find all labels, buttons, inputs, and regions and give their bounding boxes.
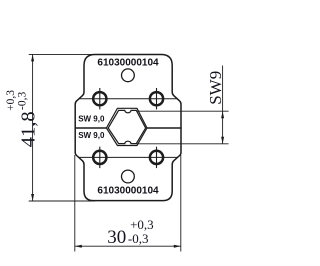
41,8 arrow down: [31, 194, 34, 201]
svg-text:+0,3: +0,3: [130, 217, 154, 232]
30 left extension line: [74, 155, 76, 252]
hole bottom-right: [150, 147, 163, 168]
hexagon cavity inner contour with relief notches: [108, 110, 145, 143]
svg-text:SW9: SW9: [206, 71, 225, 105]
hole top-left: [93, 88, 106, 109]
hole bottom-left: [93, 147, 106, 168]
SW9 dimension line: [222, 66, 224, 144]
bottom holes horizontal centerline: [79, 156, 178, 158]
SW9 arrow down: [221, 137, 224, 144]
parting line right segment: [147, 127, 182, 129]
svg-text:-0,3: -0,3: [128, 231, 149, 246]
41,8 bottom extension line: [29, 200, 95, 202]
bottom tab circle: [122, 170, 135, 183]
svg-text:-0,3: -0,3: [17, 92, 29, 110]
30 arrow left: [75, 245, 82, 248]
41,8 top extension line: [29, 53, 95, 55]
svg-text:30: 30: [107, 227, 126, 248]
SW9 arrow up: [221, 111, 224, 118]
41,8 arrow up: [31, 54, 34, 61]
hexagon cavity outer contour: [106, 108, 147, 145]
30 arrow right: [174, 245, 181, 248]
svg-text:SW 9,0: SW 9,0: [78, 114, 105, 123]
41,8 dimension line: [32, 54, 34, 201]
top holes horizontal centerline: [79, 98, 178, 100]
30 dimension line: [75, 245, 181, 247]
svg-text:41,8: 41,8: [18, 111, 40, 147]
top tab circle: [122, 69, 135, 82]
svg-text:+0,3: +0,3: [5, 90, 17, 111]
SW9 top leader line: [136, 110, 228, 112]
hole top-right: [150, 88, 163, 109]
30 right extension line: [180, 155, 182, 252]
parting line left segment: [75, 127, 106, 129]
SW9 bottom leader line: [136, 143, 228, 145]
svg-text:SW 9,0: SW 9,0: [78, 131, 105, 140]
part outline (die plate body with top/bottom tabs): [75, 55, 181, 201]
svg-text:61030000104: 61030000104: [97, 186, 159, 197]
svg-text:61030000104: 61030000104: [97, 57, 159, 68]
